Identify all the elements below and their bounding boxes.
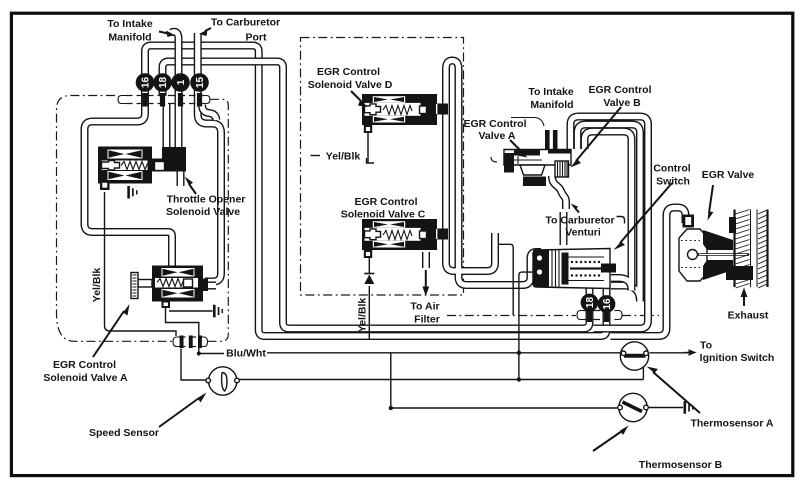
- svg-text:Thermosensor B: Thermosensor B: [639, 459, 723, 471]
- svg-text:To: To: [700, 340, 712, 352]
- svg-text:To Intake: To Intake: [107, 18, 152, 30]
- svg-text:Manifold: Manifold: [108, 32, 151, 44]
- svg-text:EGR Valve: EGR Valve: [702, 169, 755, 181]
- svg-text:EGR Control: EGR Control: [355, 196, 418, 208]
- svg-text:Yel/Blk: Yel/Blk: [326, 151, 361, 163]
- svg-text:Solenoid Valve: Solenoid Valve: [166, 206, 240, 218]
- svg-text:Thermosensor A: Thermosensor A: [690, 418, 773, 430]
- svg-text:Exhaust: Exhaust: [728, 310, 769, 322]
- svg-text:EGR Control: EGR Control: [317, 66, 380, 78]
- svg-text:Solenoid Valve C: Solenoid Valve C: [341, 209, 426, 221]
- svg-text:18: 18: [585, 297, 596, 309]
- svg-text:Yel/Blk: Yel/Blk: [357, 298, 369, 333]
- svg-text:Solenoid Valve A: Solenoid Valve A: [43, 372, 128, 384]
- svg-text:Filter: Filter: [414, 314, 440, 326]
- svg-text:EGR Control: EGR Control: [53, 359, 116, 371]
- svg-text:Throttle Opener: Throttle Opener: [167, 194, 246, 206]
- svg-text:Yel/Blk: Yel/Blk: [91, 268, 103, 303]
- svg-text:To Air: To Air: [410, 301, 439, 313]
- svg-text:Solenoid Valve D: Solenoid Valve D: [308, 79, 393, 91]
- svg-text:Valve A: Valve A: [479, 130, 516, 142]
- svg-text:16: 16: [602, 298, 613, 310]
- svg-text:Blu/Wht: Blu/Wht: [226, 348, 266, 360]
- svg-text:15: 15: [195, 77, 206, 89]
- svg-text:18: 18: [158, 77, 169, 89]
- svg-text:Ignition Switch: Ignition Switch: [700, 352, 775, 364]
- svg-text:Manifold: Manifold: [530, 99, 573, 111]
- svg-text:EGR Control: EGR Control: [464, 118, 527, 130]
- svg-text:1: 1: [176, 79, 187, 85]
- svg-text:Valve B: Valve B: [603, 97, 641, 109]
- svg-text:To Intake: To Intake: [528, 86, 573, 98]
- svg-text:To Carburetor: To Carburetor: [211, 17, 280, 29]
- svg-text:EGR Control: EGR Control: [589, 84, 652, 96]
- svg-text:Venturi: Venturi: [565, 227, 601, 239]
- svg-text:Switch: Switch: [656, 176, 690, 188]
- svg-text:Speed Sensor: Speed Sensor: [89, 427, 159, 439]
- svg-text:16: 16: [141, 77, 152, 89]
- svg-text:Port: Port: [246, 32, 268, 44]
- svg-text:To Carburetor: To Carburetor: [545, 215, 614, 227]
- svg-text:Control: Control: [653, 163, 690, 175]
